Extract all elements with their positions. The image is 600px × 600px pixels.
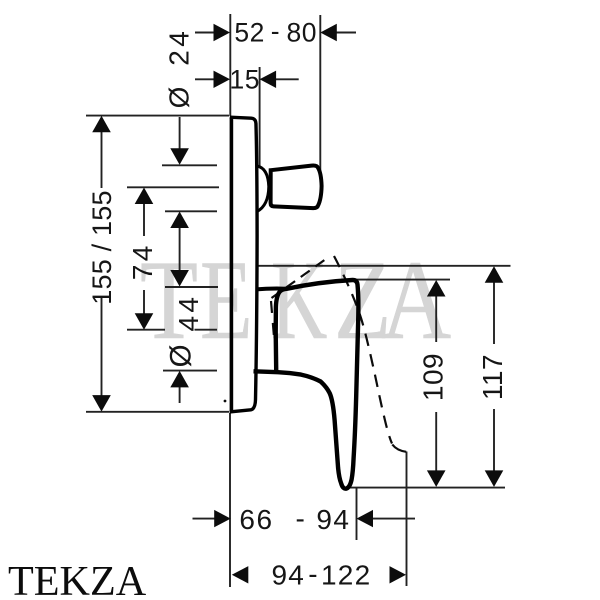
svg-text:109: 109 — [417, 353, 448, 401]
escutcheon plate — [230, 118, 234, 412]
wire bottom baseline — [346, 487, 505, 489]
wire dashed-tip extension — [406, 452, 408, 587]
wire 52-80 right extension — [319, 15, 321, 179]
dashed rotated-handle outer arc — [334, 256, 392, 444]
wire hub top witness — [165, 286, 218, 288]
handle neck top edge — [256, 287, 286, 292]
knob base bump — [257, 166, 269, 212]
wire handle tip extension — [356, 488, 358, 541]
svg-text:44: 44 — [173, 294, 204, 332]
wire plate top witness — [86, 115, 229, 117]
svg-text:80: 80 — [286, 17, 316, 47]
wire upper right witness 117 — [258, 265, 511, 267]
dimension 66-94 — [193, 518, 416, 520]
svg-text:74: 74 — [127, 242, 158, 280]
dimension texts — [230, 16, 317, 94]
dashed rotated-handle top edge — [272, 258, 329, 299]
dimension leader O24 / O44 — [179, 117, 181, 403]
svg-text:-: - — [271, 16, 280, 46]
wire handle axis witness left part — [127, 329, 165, 331]
dimension 94-122 — [232, 566, 406, 583]
dashed rotated-handle left edge — [271, 301, 274, 337]
svg-text:66: 66 — [239, 504, 273, 535]
svg-text:117: 117 — [477, 354, 508, 400]
watermark TEKZA bottom-left — [8, 561, 146, 600]
wire hub bottom witness — [163, 370, 217, 372]
svg-text:-: - — [295, 503, 305, 534]
svg-text:94: 94 — [272, 560, 306, 591]
dashed arc end hook — [392, 445, 406, 452]
svg-text:Ø: Ø — [165, 344, 198, 367]
svg-text:94: 94 — [316, 504, 350, 535]
dimension 52-80 — [195, 32, 356, 34]
dimension 74 — [143, 203, 145, 315]
svg-text:155 / 155: 155 / 155 — [87, 190, 117, 304]
wire plate bottom witness — [86, 411, 229, 413]
wire 15mm right extension — [259, 67, 261, 166]
svg-text:Ø 24: Ø 24 — [164, 28, 195, 109]
wire knob axis witness — [127, 186, 219, 188]
svg-text:-: - — [308, 558, 318, 589]
wire knob bottom witness — [165, 210, 217, 212]
wire wall extension line bottom — [229, 413, 231, 587]
wire wall extension line top — [229, 14, 231, 116]
svg-text:15: 15 — [230, 65, 260, 95]
wire upper right witness 109 — [352, 279, 450, 281]
knob (diverter) — [271, 165, 322, 208]
dimension 15 — [195, 78, 299, 80]
wire knob top witness — [162, 164, 217, 166]
svg-text:52: 52 — [234, 17, 264, 47]
wire handle axis witness right part — [195, 329, 218, 331]
dimension 155/155 — [101, 131, 103, 397]
handle paddle — [254, 280, 359, 489]
speck — [224, 400, 227, 403]
dimension 109 — [435, 295, 437, 472]
watermark TEKZA center — [140, 244, 198, 357]
svg-text:122: 122 — [321, 560, 371, 591]
dimension 117 — [493, 281, 495, 472]
